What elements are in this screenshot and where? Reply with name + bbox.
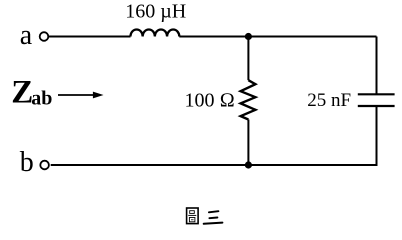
- terminal a circle: [40, 32, 49, 41]
- caption character tu (figure): [187, 208, 199, 224]
- svg-text:100 Ω: 100 Ω: [185, 90, 235, 112]
- wire top-right (inductor to right corner): [179, 36, 376, 38]
- node top junction dot: [245, 33, 252, 40]
- capacitor C1 25 nF: [358, 94, 395, 106]
- wire top-left (a to inductor): [49, 36, 131, 38]
- wire right vertical upper: [376, 37, 378, 95]
- inductor L1 160 uH: [131, 29, 180, 36]
- terminal b circle: [40, 161, 49, 170]
- svg-text:25 nF: 25 nF: [307, 90, 351, 111]
- wire middle vertical upper: [247, 37, 249, 81]
- resistor R1 100 ohm: [241, 80, 256, 119]
- svg-text:Z: Z: [11, 75, 33, 111]
- svg-text:160 µH: 160 µH: [125, 0, 186, 22]
- wire bottom (b to right corner): [51, 164, 378, 166]
- node bottom junction dot: [245, 161, 252, 168]
- caption character san (three): [204, 211, 223, 224]
- wire right vertical lower: [376, 106, 378, 165]
- svg-text:ab: ab: [31, 88, 52, 110]
- wire middle vertical lower: [247, 120, 249, 166]
- svg-text:a: a: [20, 20, 33, 51]
- arrow for Zab: [58, 94, 94, 96]
- svg-text:b: b: [20, 147, 34, 178]
